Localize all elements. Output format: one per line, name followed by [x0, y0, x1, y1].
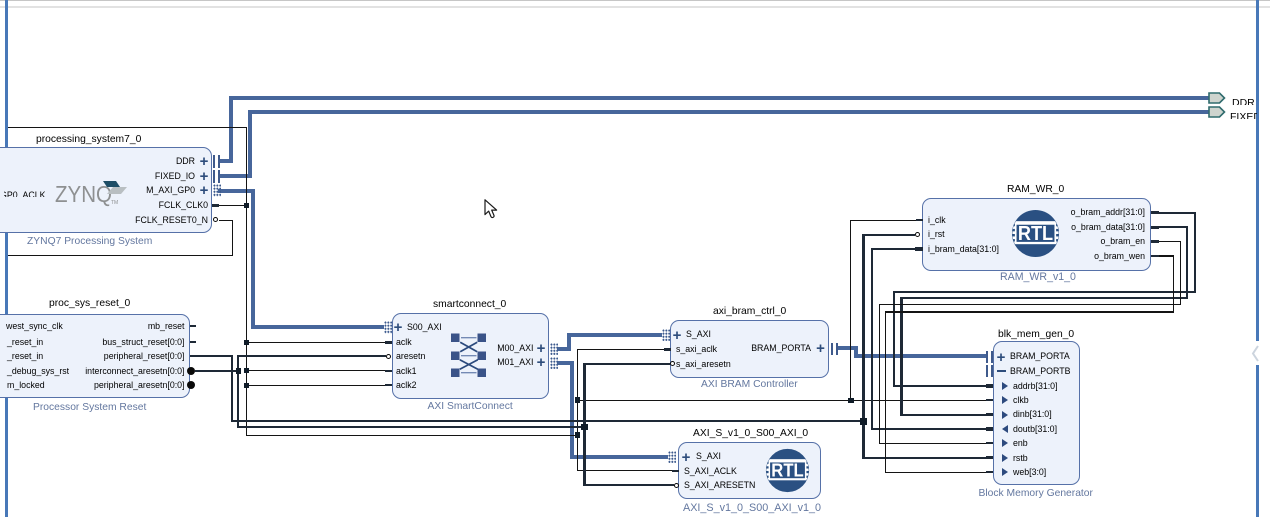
port i_rst — [928, 229, 945, 240]
stub BRAM_PORTB double bars — [986, 365, 993, 378]
port ext_reset_in (clipped) — [7, 337, 43, 348]
stub bus_struct_reset — [190, 341, 196, 344]
title smartconnect_0 — [433, 299, 506, 311]
pin circle i_rst — [915, 232, 920, 237]
stub addrb pin — [986, 384, 993, 387]
stub mb_reset — [190, 325, 196, 328]
port FCLK_RESET0_N — [108, 215, 208, 226]
title blk_mem_gen_0 — [998, 329, 1074, 341]
port DDR — [95, 156, 195, 167]
wire clk horizontal at y400 to blk_mem clkb — [577, 400, 993, 401]
port S_AXI_ARESETN — [684, 480, 755, 491]
stub o_bram_wen pin — [1151, 255, 1159, 258]
port aclk1 — [396, 366, 417, 377]
logo RTL on AXI_S block — [765, 448, 810, 493]
port S_AXI — [680, 453, 692, 463]
port clkb — [1002, 396, 1008, 404]
wire FCLK_CLK0 to smartconnect aclk — [246, 342, 392, 343]
port mb_debug_sys_rst (clipped) — [7, 366, 69, 377]
wire aresetn down to AXI_S S_AXI_ARESETN — [583, 426, 585, 486]
logo ZYNQ on processing_system7_0 — [50, 175, 135, 207]
block smartconnect_0 — [392, 313, 550, 399]
port slowest_sync_clk (clipped) — [6, 321, 63, 332]
port s_axi_aclk — [676, 344, 717, 355]
port S00_AXI — [392, 323, 404, 333]
external port DDR label — [1232, 93, 1257, 105]
port o_bram_en — [1045, 236, 1145, 247]
logo RTL on RAM_WR_0 — [1011, 209, 1060, 258]
pin circle S_AXI_ARESETN — [674, 483, 679, 488]
wire clk to axi_bram s_axi_aclk — [577, 349, 670, 350]
wire M01_AXI interface: smartconnect to AXI_S S_AXI — [557, 361, 574, 365]
stub BRAM_PORTA double bars — [986, 351, 993, 364]
stub FCLK_CLK0 pin — [212, 204, 219, 207]
stub smartconnect aclk1 pin — [385, 370, 392, 373]
left canvas border — [5, 0, 8, 517]
port web[3:0] — [1002, 468, 1008, 476]
junction aresetn y427 tap — [581, 424, 588, 431]
wire DDR interface: ZYNQ DDR to external port — [218, 159, 233, 163]
port o_bram_data[31:0] — [1045, 222, 1145, 233]
wire o_bram_data to dinb — [1152, 226, 1188, 228]
port o_bram_addr[31:0] — [1045, 207, 1145, 218]
wire FCLK_CLK0 to smartconnect aclk2 — [246, 385, 392, 386]
stub s_axi_aclk pin — [664, 348, 671, 351]
wire rstb branch down to blk_mem rstb — [862, 420, 864, 459]
stub M01_AXI hatched — [550, 357, 558, 370]
stub o_bram_data thick — [1151, 226, 1159, 229]
title processing_system7_0 — [36, 134, 141, 146]
wire FCLK_CLK0 net: port stub run to junction — [212, 205, 247, 206]
wire FIXED_IO interface: ZYNQ FIXED_IO to external port — [218, 174, 252, 178]
svg-text:RTL: RTL — [771, 459, 803, 480]
port S_AXI — [671, 331, 683, 341]
stub o_bram_addr thick — [1151, 211, 1159, 214]
stub dinb pin — [986, 413, 993, 416]
stub BRAM_PORTA double bars — [831, 343, 838, 356]
wire peripheral_reset from port — [190, 355, 233, 357]
stub S_AXI_ACLK pin — [672, 470, 679, 473]
port peripheral_reset[0:0] — [85, 351, 185, 362]
port FIXED_IO — [95, 171, 195, 182]
wire BRAM_PORTA interface: axi_bram_ctrl to blk_mem_gen — [836, 346, 858, 350]
label RAM_WR_v1_0 — [1000, 271, 1076, 283]
block axi_bram_ctrl_0 — [670, 320, 829, 378]
port addrb[31:0] — [1002, 382, 1008, 390]
port rstb — [1002, 454, 1008, 462]
right canvas border — [1256, 0, 1259, 517]
stub DDR double bars — [213, 155, 220, 168]
junction interconnect_aresetn tap — [236, 368, 242, 374]
port aclk2 — [396, 380, 417, 391]
port dcm_locked (clipped) — [7, 380, 45, 391]
stub web pin — [986, 471, 993, 474]
stub S_AXI hatched — [668, 451, 676, 464]
svg-text:RTL: RTL — [1017, 223, 1052, 245]
icon smartconnect crossbar — [445, 326, 492, 380]
junction clk y400 tap — [575, 397, 581, 403]
port s_axi_aresetn — [676, 359, 731, 370]
port doutb[31:0] — [1002, 425, 1008, 433]
port aresetn — [396, 351, 425, 362]
label Processor System Reset — [33, 402, 146, 414]
wire M_AXI_GP0 interface: ZYNQ to smartconnect S00_AXI — [218, 189, 255, 193]
port mb_reset — [85, 321, 185, 332]
wire interconnect_aresetn up branch to smartconnect aresetn — [237, 355, 239, 372]
block RAM_WR_0 — [922, 198, 1151, 271]
stub i_clk pin — [916, 219, 923, 222]
wire aresetn vertical at x584.5, up to s_axi_aresetn — [583, 363, 585, 428]
port aclk — [396, 337, 412, 348]
port M00_AXI — [433, 343, 533, 354]
stub doutb pin — [986, 427, 993, 430]
title proc_sys_reset_0 — [49, 298, 130, 310]
junction i_rst / rstb tap — [860, 418, 867, 425]
title AXI_S_v1_0_S00_AXI_0 — [693, 428, 808, 440]
external port FIXED_IO label — [1230, 107, 1257, 119]
stub smartconnect aclk2 pin — [385, 384, 392, 387]
svg-text:TM: TM — [111, 200, 118, 206]
stub smartconnect aclk pin — [385, 341, 392, 344]
port peripheral_aresetn[0:0] — [85, 380, 185, 391]
collapse chevron tab on right border — [1249, 341, 1262, 365]
port i_bram_data[31:0] — [928, 244, 999, 255]
port aux_reset_in (clipped) — [7, 351, 43, 362]
stub S_AXI hatched — [662, 329, 670, 342]
label AXI BRAM Controller — [701, 379, 798, 391]
wire FCLK_CLK0 main vertical down — [246, 205, 247, 436]
pin circle FCLK_RESET0_N — [213, 217, 218, 222]
block proc_sys_reset_0 — [0, 314, 190, 398]
wire i_rst branch up to RAM_WR i_rst — [862, 234, 864, 423]
junction clk y435 tap — [575, 432, 581, 438]
stub i_bram_data thick — [915, 247, 923, 250]
title RAM_WR_0 — [1007, 184, 1064, 196]
wire peripheral_reset down and run at y421 — [231, 355, 233, 422]
wire doutb to i_bram_data — [871, 428, 993, 430]
wire M00_AXI interface: smartconnect to axi_bram_ctrl S_AXI — [557, 347, 571, 351]
external port FIXED_IO pentagon — [1208, 106, 1226, 118]
wire clk vertical at x577 (s_axi_aclk / S_AXI_ACLK) — [577, 349, 578, 471]
wire FCLK_CLK0 horizontal run at y435 — [246, 435, 578, 436]
junction aclk tap — [244, 340, 249, 345]
mouse cursor — [484, 199, 498, 220]
stub S00_AXI hatched — [384, 321, 392, 334]
port BRAM_PORTA — [995, 353, 1007, 363]
port o_bram_wen — [1045, 251, 1145, 262]
pin circle aresetn — [386, 354, 391, 359]
wire interconnect_aresetn from circle to junction — [195, 370, 239, 372]
port BRAM_PORTA — [711, 343, 811, 354]
junction FCLK_CLK0 at port — [244, 203, 249, 208]
block blk_mem_gen_0 — [993, 341, 1080, 485]
junction aclk2 tap — [244, 383, 249, 388]
pin circle s_axi_aresetn — [670, 361, 675, 366]
wire FCLK_CLK0 up branch to M_AXI_GP0_ACLK (off-canvas left) — [246, 127, 247, 206]
port M01_AXI — [433, 357, 533, 368]
port FCLK_CLK0 — [108, 200, 208, 211]
stub enb pin — [986, 442, 993, 445]
svg-text:ZYNQ: ZYNQ — [55, 181, 112, 207]
junction i_clk tap — [848, 398, 854, 404]
block AXI_S_v1_0_S00_AXI_0 — [678, 442, 821, 499]
block processing_system7_0 — [0, 147, 212, 233]
label AXI SmartConnect — [428, 401, 513, 413]
wire clk to AXI_S S_AXI_ACLK — [577, 470, 678, 471]
stub M00_AXI hatched — [550, 343, 558, 356]
wire interconnect_aresetn down to y427 run — [237, 370, 239, 428]
stub M_AXI_GP0 hatched — [213, 184, 221, 197]
pin circle interconnect_aresetn (filled) — [187, 367, 195, 375]
port bus_struct_reset[0:0] — [85, 337, 185, 348]
stub o_bram_en pin — [1151, 240, 1159, 243]
title axi_bram_ctrl_0 — [713, 306, 786, 318]
pin circle peripheral_aresetn (filled) — [187, 381, 195, 389]
label ZYNQ7 Processing System — [27, 236, 152, 248]
stub FIXED_IO double bars — [213, 170, 220, 183]
port S_AXI_ACLK — [684, 466, 737, 477]
external port DDR pentagon — [1208, 92, 1226, 104]
label AXI_S_v1_0_S00_AXI_v1_0 — [683, 502, 821, 514]
port M_AXI_GP0 — [95, 185, 195, 196]
junction aclk1 tap — [244, 368, 249, 373]
wire o_bram_en to enb — [1152, 241, 1181, 242]
port BRAM_PORTB — [997, 370, 1006, 372]
port dinb[31:0] — [1002, 411, 1008, 419]
label Block Memory Generator — [979, 488, 1093, 500]
wire FCLK_RESET0_N net — [219, 220, 233, 221]
wire o_bram_addr to addrb — [1152, 212, 1196, 214]
wire to smartconnect aclk1 (with aresetn run from circle) — [246, 370, 392, 371]
top window edge — [0, 0, 1270, 1]
stub rstb pin — [986, 456, 993, 459]
stub clkb pin — [986, 399, 993, 402]
port i_clk — [928, 215, 946, 226]
wire o_bram_wen to web — [1152, 255, 1174, 256]
port M_AXI_GP0_ACLK (clipped) — [4, 185, 56, 197]
wire clk vertical up to RAM_WR i_clk — [850, 220, 851, 401]
port interconnect_aresetn[0:0] — [85, 366, 185, 377]
port enb — [1002, 439, 1008, 447]
